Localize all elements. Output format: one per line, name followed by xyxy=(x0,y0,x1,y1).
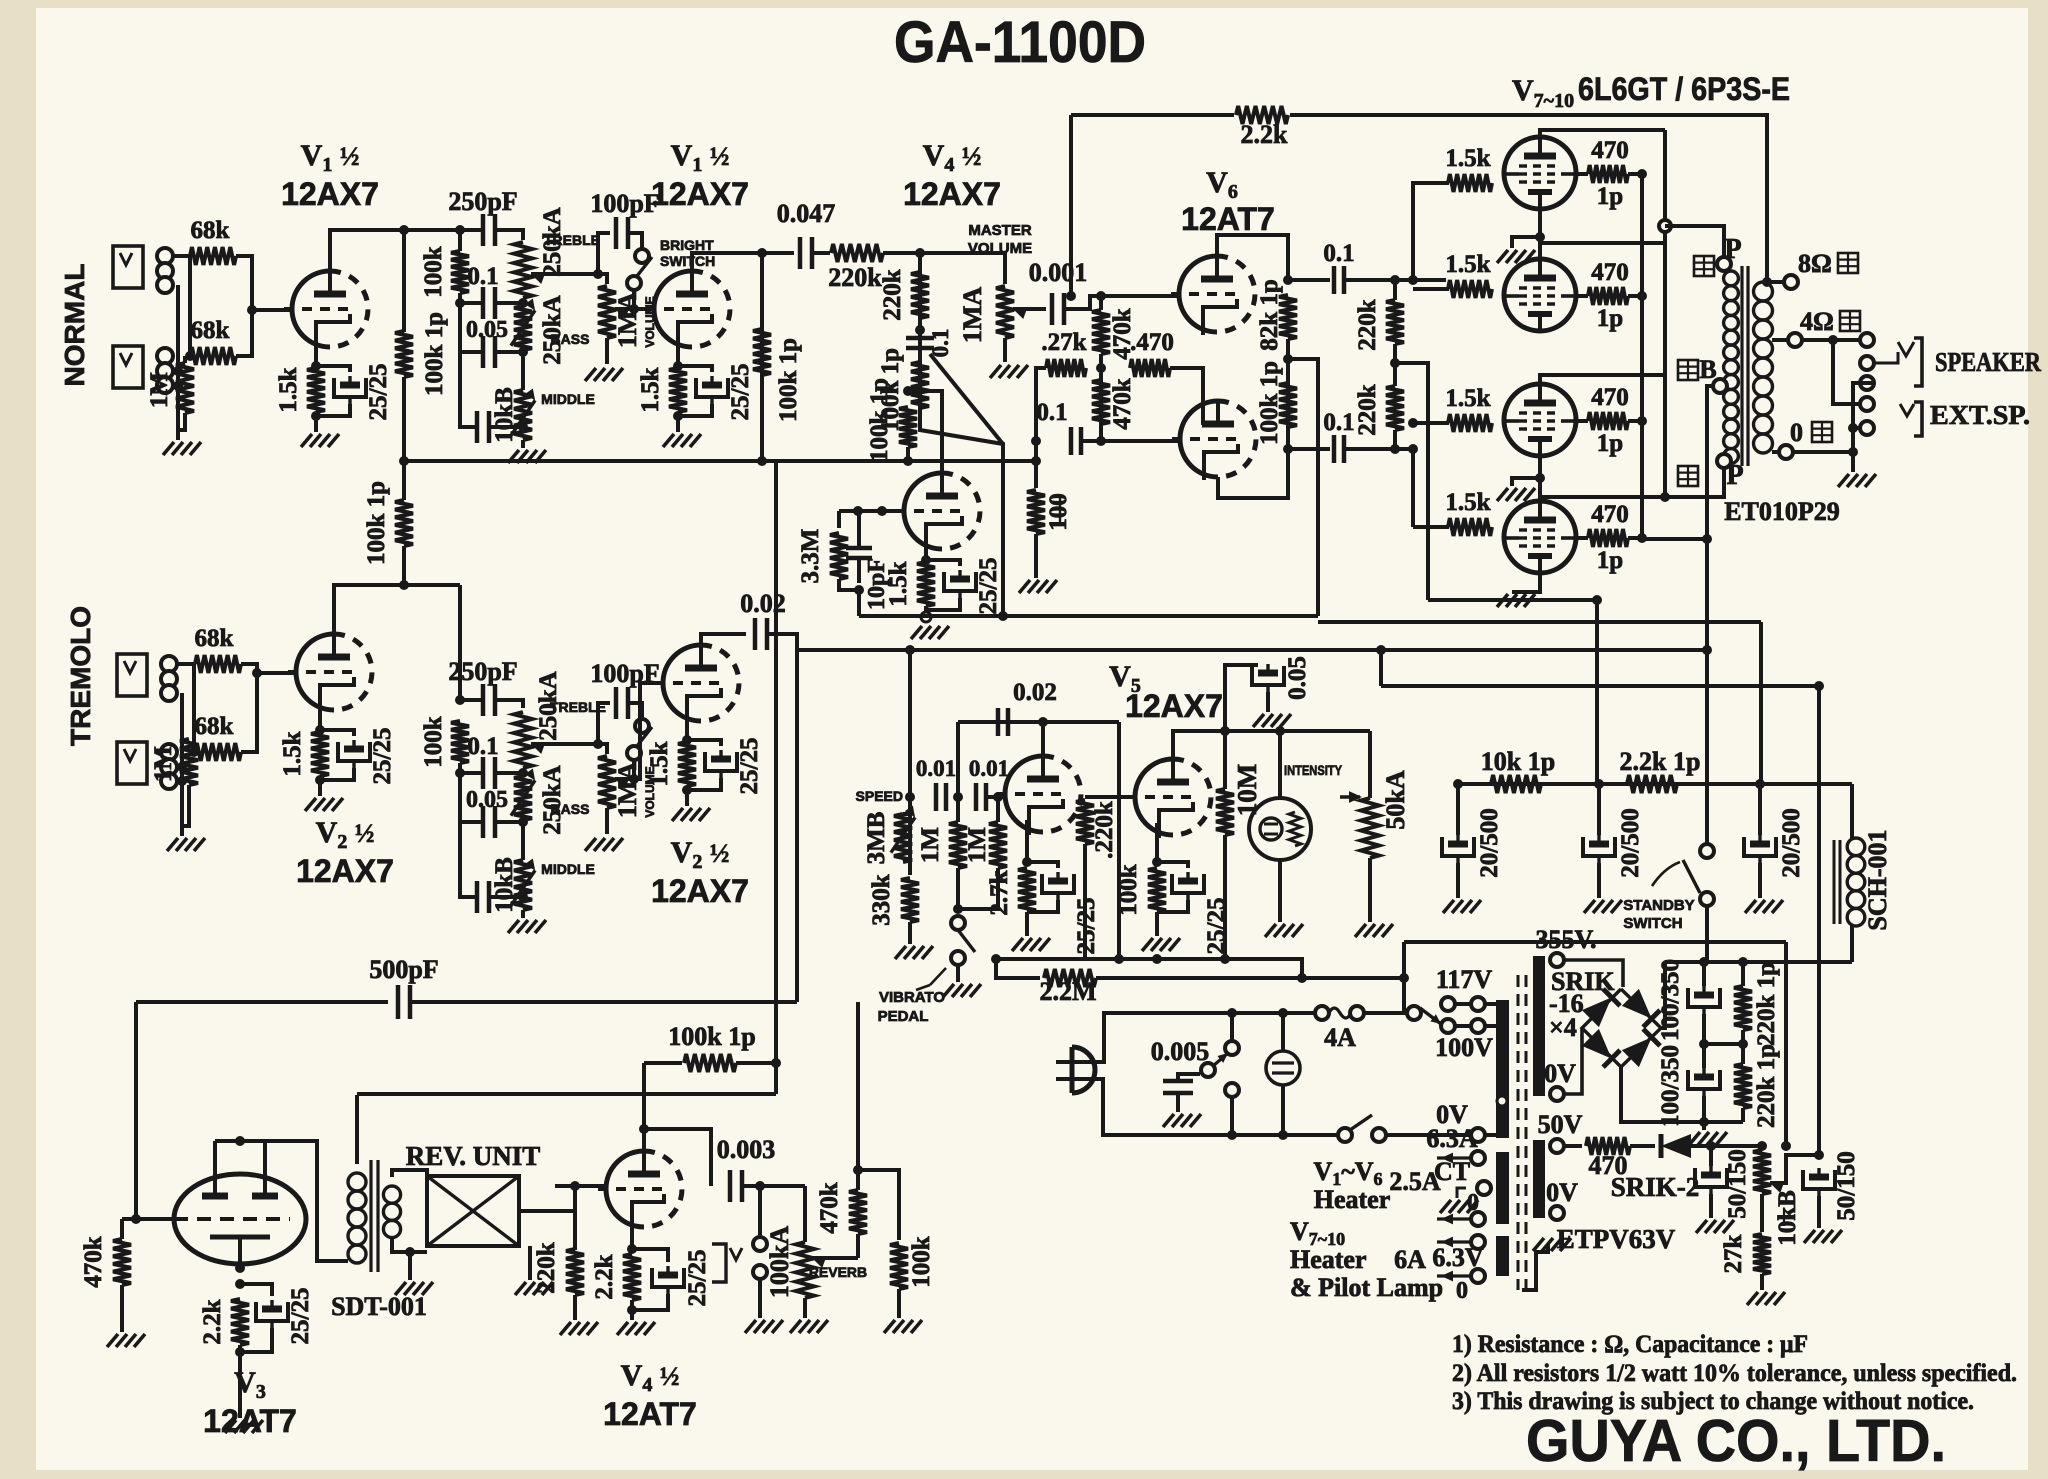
wire to grid node trem xyxy=(241,664,257,752)
tube V1b 12AX7 xyxy=(654,271,692,347)
wire row4 xyxy=(460,822,477,897)
wire left drop xyxy=(134,1002,138,1219)
node xyxy=(131,1214,141,1224)
wire grid l xyxy=(839,509,858,513)
wire jack1 tip xyxy=(177,662,194,666)
wire bleed mid xyxy=(1741,1030,1745,1064)
resistor 470 xyxy=(1130,359,1170,377)
wire to ground xyxy=(685,786,689,806)
wire to ecap xyxy=(316,366,350,372)
resistor 220k series xyxy=(831,244,883,262)
wire cath gnd tick xyxy=(1512,237,1540,248)
wire 0 to gnd col xyxy=(1793,450,1853,454)
wire screen xyxy=(1576,536,1588,540)
wire wiper path xyxy=(1770,1155,1819,1183)
node xyxy=(853,1165,863,1175)
node xyxy=(853,506,863,516)
svg-text:ETPV63V: ETPV63V xyxy=(1557,1224,1676,1254)
wire cap mid xyxy=(1702,1014,1706,1068)
wire jack vertical xyxy=(188,256,192,356)
svg-text:100k 1p: 100k 1p xyxy=(775,338,802,422)
wire bright cap out xyxy=(628,233,642,249)
arrow bass trem xyxy=(511,780,535,815)
jack reverb pedal xyxy=(712,1244,726,1282)
svg-text:0.1: 0.1 xyxy=(467,263,498,290)
potentiometer 250kA TREBLE trem xyxy=(514,712,532,768)
svg-text:MASTER: MASTER xyxy=(968,222,1032,239)
wire ecap bottom xyxy=(1157,900,1188,912)
wire bleed a xyxy=(1741,962,1745,986)
svg-text:10kB: 10kB xyxy=(491,387,518,443)
wire 0.02 out xyxy=(767,634,797,650)
wire sec to rev xyxy=(410,1250,427,1254)
wire 100 to bar xyxy=(1485,1024,1496,1028)
wire wiper to V2b grid xyxy=(615,683,663,779)
wire plates vertical xyxy=(1663,130,1667,497)
resistor 220k osc xyxy=(1076,800,1094,844)
wire T4 grid xyxy=(1413,525,1449,529)
wire V3 grid xyxy=(136,1217,174,1221)
wire T1 plate xyxy=(1540,130,1665,137)
arrow middle xyxy=(511,400,535,435)
resistor 27k bias xyxy=(1753,1234,1771,1274)
svg-text:12AX7: 12AX7 xyxy=(651,176,749,212)
svg-text:220k: 220k xyxy=(828,263,882,292)
transformer OPT primary xyxy=(1724,271,1739,286)
terminal 8ohm xyxy=(1784,275,1798,289)
svg-text:50/150: 50/150 xyxy=(1724,1149,1751,1218)
wire mid pot trem xyxy=(521,822,525,860)
svg-text:MIDDLE: MIDDLE xyxy=(541,861,595,877)
wire to ground xyxy=(318,776,322,796)
jack EXT.SP. xyxy=(1860,397,1874,411)
ground vibrato switch xyxy=(943,984,954,997)
wire grid net bottom xyxy=(839,579,859,590)
wire V5b cathode xyxy=(1155,823,1159,862)
resistor 100k 1p trem xyxy=(395,500,413,546)
node xyxy=(518,768,528,778)
wire SCH bottom xyxy=(1850,926,1854,962)
wire jack top xyxy=(758,1186,762,1237)
wire T2 grid feed xyxy=(1395,278,1413,282)
wire 100ohm col xyxy=(1034,441,1038,488)
wire 3.3M col xyxy=(837,511,841,528)
svg-text:& Pilot Lamp: & Pilot Lamp xyxy=(1290,1273,1443,1302)
resistor 470 bias xyxy=(1586,1137,1630,1155)
ground lamp xyxy=(1265,924,1276,937)
node xyxy=(1096,436,1106,446)
bus y686 xyxy=(1381,684,1819,688)
capacitor 0.05 tone xyxy=(481,336,486,368)
terminal heater 0 xyxy=(1471,1212,1485,1226)
arrow 6.3V b xyxy=(1437,1274,1470,1277)
ground rev jack xyxy=(745,1320,756,1333)
wire cap to treble pot xyxy=(495,230,523,240)
resistor 1.5k cathode V2a xyxy=(311,732,329,776)
node xyxy=(1706,1141,1716,1151)
tube V3 12AT7 (double) xyxy=(174,1174,306,1264)
svg-text:12AX7: 12AX7 xyxy=(651,873,749,909)
wire SDT sec bottom xyxy=(392,1238,410,1252)
wire to P top xyxy=(1665,226,1724,258)
wire bright up xyxy=(598,233,610,274)
wire vol top xyxy=(598,274,607,284)
svg-text:1M: 1M xyxy=(146,372,173,408)
resistor 100k tone xyxy=(451,251,469,293)
wire 1M b xyxy=(996,797,1000,822)
wire sw top xyxy=(1230,1013,1234,1041)
capacitor 0.1 coupling upper xyxy=(1332,266,1337,294)
resistor 470 1p screen T1 xyxy=(1588,165,1628,183)
svg-text:GA-1100D: GA-1100D xyxy=(894,10,1146,75)
wire V1b plate xyxy=(692,253,794,271)
svg-text:470: 470 xyxy=(1591,259,1629,286)
svg-text:0.1: 0.1 xyxy=(1323,240,1354,267)
switch BRIGHT xyxy=(635,249,649,263)
svg-text:117V: 117V xyxy=(1436,965,1493,994)
resistor 82k 1p xyxy=(1279,295,1297,339)
node xyxy=(771,1058,781,1068)
svg-text:100k: 100k xyxy=(420,246,447,298)
wire xyxy=(1758,784,1762,835)
svg-text:3MB: 3MB xyxy=(863,812,890,865)
wire 10pF bot xyxy=(857,559,861,583)
svg-text:100k: 100k xyxy=(420,716,447,768)
arrow treble wiper trem xyxy=(531,743,545,754)
svg-text:25/25: 25/25 xyxy=(684,1250,711,1307)
svg-text:SPEAKER: SPEAKER xyxy=(1935,347,2041,377)
wire screen xyxy=(1576,419,1588,423)
capacitor 0.02 coupling xyxy=(753,618,758,650)
wire 2.2k gnd xyxy=(630,1300,634,1320)
capacitor 0.02 osc xyxy=(996,708,1001,736)
svg-text:0.05: 0.05 xyxy=(1284,656,1311,700)
resistor 470k lower xyxy=(1092,380,1110,424)
svg-text:1.5k: 1.5k xyxy=(1445,385,1490,412)
transformer SDT-001 primary xyxy=(348,1173,366,1191)
wire V5a plate xyxy=(1041,722,1045,756)
wire screen xyxy=(1576,294,1588,298)
svg-text:355V.: 355V. xyxy=(1536,925,1597,954)
switch voltage select xyxy=(1407,1006,1421,1020)
SCH core xyxy=(1833,840,1836,924)
wire cathode xyxy=(924,537,928,560)
capacitor 25/25 cathode xyxy=(334,376,366,404)
wire T1 grid feed xyxy=(1413,183,1449,280)
wire SCH top xyxy=(1850,784,1854,838)
wire 470 to V6b grid xyxy=(1170,368,1203,425)
svg-text:VOLUME: VOLUME xyxy=(968,240,1032,257)
wire screen2 xyxy=(1628,536,1642,540)
svg-text:330k: 330k xyxy=(868,874,895,926)
bus y600 xyxy=(1428,598,1597,602)
svg-text:1.5k: 1.5k xyxy=(279,731,306,776)
wire to ecap xyxy=(1027,862,1058,868)
wire sleeves xyxy=(1853,383,1874,472)
wire ecap bottom xyxy=(632,1294,668,1310)
svg-text:220k: 220k xyxy=(1354,384,1381,436)
node xyxy=(1660,492,1670,502)
wire to 220k bot xyxy=(1345,447,1413,451)
svg-text:ET010P29: ET010P29 xyxy=(1724,497,1840,526)
resistor 1.5k grid T3 xyxy=(1448,414,1492,432)
svg-text:20/500: 20/500 xyxy=(1778,808,1805,877)
wire 470k gnd xyxy=(120,1285,124,1332)
terminal P top xyxy=(1717,257,1731,271)
ground 20/500 c xyxy=(1745,900,1756,913)
capacitor 0.1 tone xyxy=(481,287,486,319)
svg-text:×4: ×4 xyxy=(1549,1013,1577,1042)
wire 2.2M right xyxy=(1096,976,1404,980)
potentiometer 10kB MIDDLE xyxy=(514,390,532,440)
svg-text:25/25: 25/25 xyxy=(1073,898,1100,955)
terminal 4ohm xyxy=(1788,333,1802,347)
svg-text:470: 470 xyxy=(1591,384,1629,411)
svg-text:470k: 470k xyxy=(80,1236,107,1288)
wire ecap bottom xyxy=(687,778,721,790)
ground V2a cathode xyxy=(305,798,316,811)
wire to V2a grid xyxy=(257,671,296,675)
wire T3 plate xyxy=(1540,375,1665,384)
wire V5b plate xyxy=(1173,731,1225,759)
wire 0ohm tap xyxy=(1772,450,1779,454)
capacitor 25/25 V5b xyxy=(1172,872,1204,900)
ground 100ohm xyxy=(1019,580,1030,593)
svg-text:Heater: Heater xyxy=(1314,1185,1391,1214)
SDT core xyxy=(369,1160,372,1272)
PT heater bar 2 xyxy=(1496,1236,1509,1276)
node jack2 joins xyxy=(173,366,183,376)
bus A preamp B+ xyxy=(404,459,1036,463)
wire jack vertical trem xyxy=(192,664,196,752)
svg-text:10k 1p: 10k 1p xyxy=(1481,747,1555,776)
terminal 50V 0 xyxy=(1550,1206,1564,1220)
bus V5 bottom xyxy=(996,959,1302,978)
wire 100k1p line xyxy=(644,1061,682,1065)
svg-text:12AX7: 12AX7 xyxy=(903,176,1001,212)
wire 4ohm tap xyxy=(1772,338,1788,342)
wire cap a top xyxy=(1702,962,1706,986)
wire ecap bottom xyxy=(926,598,960,610)
svg-text:100V: 100V xyxy=(1435,1033,1493,1062)
resistor 100k trem tone xyxy=(451,721,469,763)
wire pot gnd xyxy=(803,1298,807,1318)
node screen bus xyxy=(1637,533,1647,543)
svg-text:0.05: 0.05 xyxy=(466,317,508,343)
potentiometer 250kA BASS trem xyxy=(514,776,532,820)
ground rev pot xyxy=(790,1320,801,1333)
wire wiper to V1b grid xyxy=(615,307,654,311)
svg-text:12AX7: 12AX7 xyxy=(1125,688,1223,724)
svg-text:250pF: 250pF xyxy=(448,657,517,686)
arrow reverb xyxy=(812,1257,826,1268)
svg-text:MIDDLE: MIDDLE xyxy=(541,391,595,407)
svg-text:1.5k: 1.5k xyxy=(885,561,912,606)
tube V6b 12AT7 xyxy=(1180,401,1218,477)
capacitor 25/25 V2b xyxy=(705,750,737,778)
node xyxy=(315,775,325,785)
wire osc top xyxy=(958,720,1119,724)
ground intensity xyxy=(1355,924,1366,937)
svg-text:0.001: 0.001 xyxy=(1029,258,1088,287)
node xyxy=(1114,954,1124,964)
resistor 220k 1p bleed a xyxy=(1734,986,1752,1030)
wire pot gnd xyxy=(1368,858,1372,922)
svg-text:SRIK-2: SRIK-2 xyxy=(1611,1172,1700,1202)
potentiometer 250kA BASS xyxy=(514,306,532,350)
svg-text:1p: 1p xyxy=(1597,183,1623,210)
svg-text:STANDBY: STANDBY xyxy=(1623,897,1694,914)
svg-text:2.2M: 2.2M xyxy=(1039,977,1096,1006)
bus y622 xyxy=(1318,620,1761,624)
transformer OPT secondary xyxy=(1754,282,1773,301)
svg-text:100k 1p: 100k 1p xyxy=(668,1022,755,1051)
svg-text:50kA: 50kA xyxy=(1381,770,1410,829)
svg-text:100k: 100k xyxy=(908,1236,935,1288)
wire row2 xyxy=(460,301,483,305)
svg-text:250kA: 250kA xyxy=(539,295,566,364)
wire 8ohm tap xyxy=(1767,280,1784,284)
node xyxy=(755,1181,765,1191)
wire V5b gridline xyxy=(1085,795,1134,799)
wire 470k col xyxy=(856,1234,860,1258)
wire xyxy=(1597,784,1601,835)
node xyxy=(953,904,963,914)
ground cathodyne xyxy=(911,626,922,639)
wire 100k col xyxy=(458,230,462,251)
resistor 2.2k V4b xyxy=(623,1254,641,1300)
wire sleeve vertical xyxy=(176,285,180,440)
wire to 0V xyxy=(1386,1133,1471,1137)
resistor 1M osc b xyxy=(989,822,1007,868)
wire pot col xyxy=(1760,1194,1764,1232)
wire V3 plate to SDT xyxy=(265,1141,348,1261)
resistor 10M xyxy=(1216,789,1234,835)
wire to V1a grid xyxy=(252,308,292,312)
svg-text:1M: 1M xyxy=(150,746,177,782)
wire NFB from top bus xyxy=(1069,115,1073,296)
svg-text:250pF: 250pF xyxy=(448,187,517,216)
wire 220k col xyxy=(1083,844,1087,959)
node xyxy=(1096,291,1106,301)
svg-text:12AT7: 12AT7 xyxy=(1181,201,1275,237)
resistor 100k 1p V1b plate xyxy=(753,329,771,375)
wire cath T3 T4 xyxy=(1538,456,1542,501)
wire cap to pot xyxy=(495,700,523,708)
node xyxy=(1408,275,1418,285)
node xyxy=(1702,534,1712,544)
wire y942 line xyxy=(1404,940,1786,944)
wire screen xyxy=(1576,172,1588,176)
wire 220k bottom xyxy=(1393,430,1397,449)
node xyxy=(235,1263,245,1273)
wire 100k down xyxy=(458,293,462,352)
wire cap to grid B xyxy=(1082,439,1179,443)
potentiometer 1MA VOLUME trem xyxy=(598,756,616,808)
wire MV gnd xyxy=(1003,338,1007,362)
wire 500pF right xyxy=(412,1000,797,1004)
arrow standby callout xyxy=(1652,862,1680,886)
wire lamp leads2 xyxy=(1281,1085,1285,1135)
capacitor tone bottom xyxy=(475,411,480,443)
wire 1M leads xyxy=(183,356,187,363)
ground V4b cathode xyxy=(617,1322,628,1335)
resistor 68k trem 2 xyxy=(195,743,241,761)
svg-text:GUYA CO., LTD.: GUYA CO., LTD. xyxy=(1526,1408,1946,1474)
wire mid link xyxy=(1704,1042,1743,1046)
resistor 1.5k cathode V2b xyxy=(678,742,696,786)
wire V1a cathode xyxy=(314,335,318,366)
capacitor 100/350 b xyxy=(1688,1068,1720,1096)
wire xyxy=(1758,863,1762,898)
wire 470k up xyxy=(856,1002,860,1190)
ground SDT xyxy=(395,1282,406,1295)
wire to ground xyxy=(924,606,928,622)
svg-text:100k: 100k xyxy=(1115,864,1142,916)
svg-text:12AX7: 12AX7 xyxy=(296,853,394,889)
wire switch down trem xyxy=(632,760,636,779)
wire pot top xyxy=(803,1186,807,1242)
wire ecap a gnd xyxy=(1709,1194,1713,1218)
diode bridge SRIK-16 x4 xyxy=(1582,989,1661,1067)
svg-text:Heater: Heater xyxy=(1290,1245,1367,1274)
svg-text:220k 1p: 220k 1p xyxy=(1753,1044,1780,1128)
node xyxy=(518,892,528,902)
ground input xyxy=(163,442,174,455)
svg-text:2.2k: 2.2k xyxy=(1241,120,1289,149)
wire 1M bottoms xyxy=(958,868,998,909)
node screen bus xyxy=(1637,416,1647,426)
arrow heater 0 xyxy=(1437,1217,1470,1220)
node xyxy=(1848,423,1858,433)
svg-text:50V: 50V xyxy=(1538,1110,1583,1139)
capacitor 25/25 V3 xyxy=(256,1300,288,1328)
svg-text:SCH-001: SCH-001 xyxy=(1863,829,1892,930)
wire to ecap xyxy=(240,1284,272,1296)
arrow intensity xyxy=(1349,791,1362,803)
wire 4ohm to jacks xyxy=(1802,338,1860,342)
wire to EXT tip xyxy=(1833,340,1860,404)
ground V1a cathode xyxy=(301,434,312,447)
svg-text:REVERB: REVERB xyxy=(809,1264,867,1280)
wire 100 to gnd xyxy=(1034,534,1038,578)
wire 3MB xyxy=(903,812,910,816)
wire T4 plate xyxy=(1540,497,1665,500)
node wiper line xyxy=(629,304,639,314)
wire V4b plate xyxy=(642,1063,646,1151)
wire 470k grid link xyxy=(122,1217,136,1221)
arrow 3MB xyxy=(891,817,915,852)
wire ecap bottom xyxy=(678,404,712,416)
wire EXT sleeve xyxy=(1853,426,1860,430)
resistor 2.2k V3 xyxy=(231,1299,249,1345)
ground 0.005 xyxy=(1163,1114,1174,1127)
wire plate up xyxy=(908,391,942,471)
svg-text:2) All resistors 1/2 watt 10%: 2) All resistors 1/2 watt 10% tolerance,… xyxy=(1452,1360,2017,1387)
node screen bus xyxy=(1637,291,1647,301)
node xyxy=(1453,779,1463,789)
node xyxy=(455,695,465,705)
node xyxy=(1699,1039,1709,1049)
wire row4b xyxy=(489,425,523,429)
capacitor 0.1 NFB xyxy=(1069,427,1074,455)
resistor 1.5k cathode V1b xyxy=(669,368,687,412)
potentiometer 250kA TREBLE xyxy=(514,242,532,298)
wire 2.2M line xyxy=(996,959,1040,978)
ground 50/150 b xyxy=(1804,1230,1815,1243)
node xyxy=(1283,354,1293,364)
resistor 100k mix xyxy=(890,1243,908,1289)
